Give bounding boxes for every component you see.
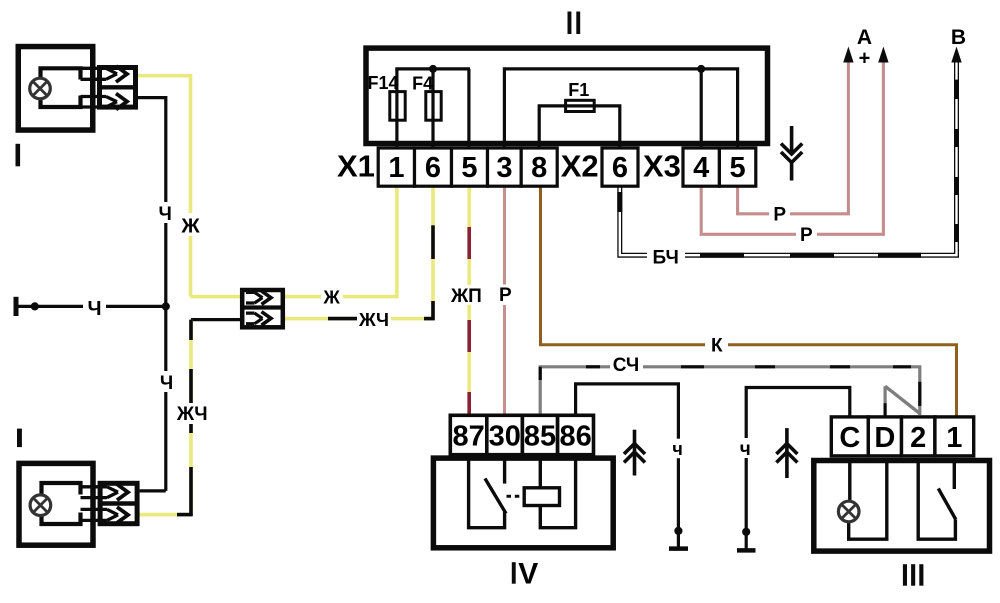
svg-text:5: 5 (461, 152, 477, 184)
wire label Ч on left horizontal (83, 297, 106, 317)
headlamp I bottom-left: outer box (19, 463, 93, 545)
switch III pin cells C D 2 1 (831, 417, 973, 456)
svg-text:F4: F4 (412, 73, 433, 93)
arrow B head (951, 47, 961, 63)
svg-text:V: V (518, 558, 538, 591)
terminal bar left end (14, 297, 19, 316)
wire Ж yellow: lamp I top connector to middle connector and up to X1 pin 1 (136, 76, 397, 297)
relay coil wiring pins 85 86 (540, 456, 575, 528)
wire label СЧ (610, 355, 643, 375)
label III (903, 564, 907, 586)
wire Р pink: X3 pin 5 down, right, up to arrow A left (738, 63, 849, 214)
fuse F14 (390, 92, 405, 121)
wire ЖЧ yellow/black: middle connector down to lamp I bottom-left (140, 320, 191, 515)
fuse F4 (426, 92, 441, 121)
block II main box (366, 48, 768, 143)
node junction dot 2 (162, 302, 170, 310)
connector X1 pin cells 1 6 5 3 8 (378, 148, 756, 186)
ground symbol up-arrow near relay (624, 430, 645, 476)
label I bottom-left (17, 429, 22, 448)
headlamp I top-left: outer box (18, 47, 93, 131)
svg-text:Р: Р (773, 205, 786, 226)
middle connector pins upper cell (246, 291, 271, 304)
wire ЖП yellow/darkred: X1 pin 5 down to relay pin 87 (467, 186, 471, 414)
svg-text:+: + (859, 48, 871, 70)
wire ЖЧ yellow/black: middle connector to X1 pin 6 (240, 186, 433, 319)
wire label БЧ (647, 247, 685, 267)
svg-text:Ж: Ж (323, 287, 341, 307)
svg-text:Ч: Ч (87, 298, 101, 320)
label I top-left (16, 144, 21, 167)
wire label Р near arrow A right (796, 225, 817, 244)
svg-text:Р: Р (499, 285, 512, 306)
svg-text:Ч: Ч (160, 373, 173, 394)
arrow A right head (878, 47, 888, 63)
wire БЧ white/black double line: X2 pin 6 down, right, up to arrow B (620, 62, 957, 255)
svg-text:Ж: Ж (180, 215, 200, 237)
relay switch blade (485, 479, 506, 514)
node dot above X3 pin 4 (697, 65, 705, 73)
svg-text:86: 86 (559, 420, 591, 452)
relay IV main box (433, 458, 613, 548)
node dot at F4 top (429, 65, 437, 73)
arrow A left head (843, 47, 853, 63)
wire label Ч on vertical x166 upper (157, 202, 174, 223)
ground symbol down-arrow right of block II (781, 126, 802, 181)
wire label Ж on vertical x190 (179, 213, 202, 236)
connector pins upper cell (81, 66, 128, 82)
svg-text:ЖЧ: ЖЧ (358, 309, 389, 330)
connector pins upper cell (81, 484, 129, 500)
svg-text:ч: ч (672, 439, 682, 459)
svg-text:СЧ: СЧ (613, 355, 640, 376)
svg-text:ЖЧ: ЖЧ (176, 404, 208, 425)
connector of lamp I top: box (100, 68, 136, 108)
connector of lamp I bottom: box (100, 483, 137, 523)
III lamp circuit pin C to D (849, 459, 887, 540)
pin digits X1 (388, 152, 745, 184)
svg-text:2: 2 (910, 422, 926, 454)
wire label Р on vertical x504 (496, 285, 514, 306)
wire gray jumper: switch III pin D stub and diagonal to pin 2 drop (883, 386, 886, 403)
wire СЧ gray: relay pin 85 up and right to switch III pin 2 (540, 367, 920, 415)
svg-text:X2: X2 (561, 149, 599, 184)
wire Ч black: relay pin 86 up, right, down to ground (576, 384, 679, 531)
svg-text:3: 3 (496, 152, 512, 184)
wire inside II: pin1-F14 to F4 node to pin5 (395, 69, 737, 147)
svg-text:4: 4 (693, 152, 709, 184)
connector pins lower cell (81, 94, 128, 110)
svg-text:C: C (839, 422, 860, 454)
wire label Ч on vertical x166 lower (158, 371, 176, 392)
wire Ч black: switch III pin C up, left, down to ground (746, 388, 850, 532)
svg-text:БЧ: БЧ (653, 248, 679, 269)
svg-text:B: B (951, 26, 966, 49)
svg-text:1: 1 (388, 152, 404, 184)
wire label ЖП (448, 285, 485, 305)
svg-text:D: D (874, 422, 895, 454)
svg-text:1: 1 (946, 422, 962, 454)
III lamp bulb symbol (838, 501, 859, 522)
label IV (512, 562, 516, 584)
middle inline connector: box (242, 290, 283, 327)
wire Ч black: lamp I bottom to junction node and left terminal (16, 98, 166, 491)
wire Р pink: X3 pin 4 down, right, up to arrow A right (701, 63, 883, 235)
connector pins lower cell (81, 507, 129, 523)
svg-text:F1: F1 (568, 80, 589, 100)
lamp bulb symbol top-left (30, 78, 51, 99)
relay IV pin cells 87 30 85 86 (450, 415, 593, 454)
wire label ч on ground wire 1 (670, 439, 686, 459)
wire label Ж on horizontal to X1-1 (321, 288, 343, 308)
svg-text:6: 6 (425, 152, 441, 184)
lamp bulb symbol bottom-left (30, 495, 51, 516)
ground terminal 1: dot, stem, bar (674, 527, 682, 535)
ground symbol up-arrow near switch III (776, 428, 797, 478)
svg-text:5: 5 (730, 152, 746, 184)
svg-text:F14: F14 (367, 73, 398, 93)
svg-text:X3: X3 (643, 149, 681, 184)
svg-text:8: 8 (531, 152, 547, 184)
ground terminal 2: dot, stem, bar (742, 528, 750, 536)
svg-text:К: К (711, 335, 723, 356)
wire Р pink: X1 pin 3 down to relay pin 30 (503, 186, 506, 414)
wire label ч on ground wire 2 (738, 438, 755, 458)
wire label Р near arrow A left (769, 205, 790, 224)
wire label ЖЧ on vertical x191 (175, 403, 210, 424)
svg-text:6: 6 (612, 152, 628, 184)
wire label К (705, 336, 728, 355)
svg-text:30: 30 (489, 420, 521, 452)
svg-text:Р: Р (800, 225, 813, 246)
middle connector pins lower cell (246, 312, 271, 325)
wire К brown: X1 pin 8 down, right, into switch III pin 1 (541, 186, 957, 416)
relay contact circuit pin 87 to blade pivot (469, 456, 505, 528)
svg-text:87: 87 (452, 420, 484, 452)
bulb holder bottom-left (42, 483, 81, 524)
svg-text:ЖП: ЖП (450, 286, 482, 307)
fuse F1 (566, 100, 595, 111)
svg-text:X1: X1 (337, 149, 375, 184)
switch III main box (814, 461, 990, 552)
III switch circuit pin 2 to 1 (918, 459, 955, 540)
label II (568, 12, 572, 35)
wire label ЖЧ on horizontal to X1-6 (357, 310, 391, 330)
bulb holder top-left (41, 68, 81, 107)
III switch blade (938, 489, 956, 520)
relay actuation dashed link (507, 495, 525, 498)
svg-text:A: A (857, 26, 872, 49)
wire stub black: middle connector lower-left port (191, 318, 241, 321)
node junction dot 1 (31, 302, 39, 310)
svg-text:Ч: Ч (159, 204, 172, 225)
svg-text:ч: ч (740, 439, 751, 460)
svg-text:85: 85 (524, 420, 556, 452)
relay coil (524, 488, 559, 506)
